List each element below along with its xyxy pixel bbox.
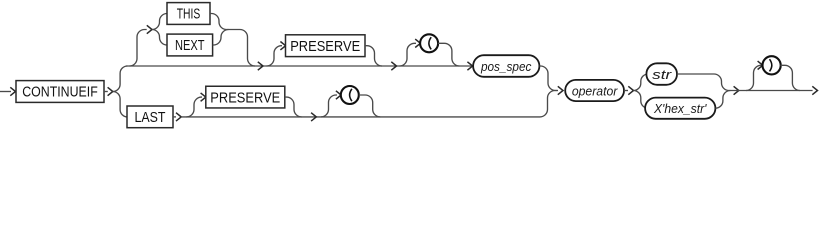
wire open paren bottom exit down to baseline <box>359 95 380 117</box>
wire collect from NEXT <box>213 30 229 46</box>
wire fork up to open paren (top) <box>400 43 417 66</box>
wire close paren exit down to main line <box>780 65 800 90</box>
arrow into open paren (top) <box>415 39 420 47</box>
wire fork rail 1 lower (to LAST alternative) <box>113 92 128 117</box>
wire fork up to close paren <box>746 65 763 90</box>
svg-text:operator: operator <box>572 83 618 98</box>
keyword box NEXT <box>167 34 213 56</box>
arrow into PRESERVE (top) <box>280 42 285 50</box>
svg-text:CONTINUEIF: CONTINUEIF <box>22 84 98 101</box>
arrow on baseline after PRESERVE bottom <box>311 113 316 121</box>
arrow into THIS/NEXT stack <box>147 25 152 33</box>
arrow final <box>812 86 817 94</box>
wire stack merge down to baseline <box>227 30 256 67</box>
wire open paren top exit down to baseline <box>438 43 460 66</box>
keyword box CONTINUEIF <box>16 81 104 103</box>
arrow after CONTINUEIF <box>108 87 113 95</box>
wire distribution to NEXT <box>152 30 167 46</box>
svg-text:PRESERVE: PRESERVE <box>290 38 360 55</box>
wire final main line <box>729 90 813 92</box>
oval operator <box>565 80 624 101</box>
arrow into open paren (bottom) <box>336 91 341 99</box>
arrow into pos_spec <box>467 62 472 70</box>
arrow on baseline after PRESERVE top <box>391 62 396 70</box>
arrow into CONTINUEIF <box>10 87 15 95</box>
oval X'hex_str' <box>645 98 715 119</box>
wire fork up to PRESERVE (bottom) <box>187 97 203 117</box>
wire fork up to open paren (bottom) <box>321 95 337 117</box>
wire fork down to X'hex_str' <box>634 91 649 109</box>
circle open paren bottom <box>341 86 359 104</box>
wire bottom baseline <box>181 116 540 118</box>
oval pos_spec <box>473 55 539 77</box>
wire X'hex_str' exit up to merge rail 3 <box>715 91 730 109</box>
wire fork up to str <box>634 74 649 91</box>
wire distribution to THIS <box>152 14 167 30</box>
wire bottom baseline up to merge rail 2 <box>540 91 558 117</box>
keyword box THIS <box>167 3 210 25</box>
wire after LAST <box>173 116 176 118</box>
arrow on baseline after stack <box>258 62 263 70</box>
wire collect from THIS <box>210 14 227 30</box>
wire top baseline <box>126 65 473 67</box>
svg-text:THIS: THIS <box>177 6 201 23</box>
wire after CONTINUEIF <box>104 91 108 93</box>
keyword box PRESERVE bottom <box>206 86 285 108</box>
wire fork up to PRESERVE (top) <box>267 46 283 66</box>
svg-text:X'hex_str': X'hex_str' <box>653 101 707 116</box>
arrow after operator <box>628 86 633 94</box>
circle close paren <box>763 56 781 74</box>
arrow after LAST <box>176 113 181 121</box>
arrow after str merge <box>734 86 739 94</box>
wire entry main line <box>0 91 11 93</box>
wire str exit down to merge rail 3 <box>677 74 729 91</box>
oval str <box>646 63 677 85</box>
svg-text:str: str <box>652 67 672 82</box>
svg-text:LAST: LAST <box>135 109 166 126</box>
arrow into operator <box>558 86 563 94</box>
svg-text:pos_spec: pos_spec <box>480 59 532 74</box>
keyword box LAST <box>127 106 173 128</box>
wire fork rail 1 upper (to top alternative baseline) <box>113 66 128 92</box>
wire pos_spec exit down to merge rail <box>539 66 558 91</box>
circle open paren top <box>420 34 438 52</box>
keyword box PRESERVE top <box>286 35 366 57</box>
arrow into close paren <box>758 61 763 69</box>
wire PRESERVE bottom exit down to baseline <box>285 97 302 117</box>
svg-text:NEXT: NEXT <box>175 37 205 54</box>
arrow into PRESERVE (bottom) <box>201 93 206 101</box>
wire after operator <box>624 90 628 92</box>
wire PRESERVE top exit down to baseline <box>365 46 382 66</box>
svg-text:PRESERVE: PRESERVE <box>210 89 280 106</box>
wire fork up to THIS/NEXT stack <box>130 30 147 67</box>
